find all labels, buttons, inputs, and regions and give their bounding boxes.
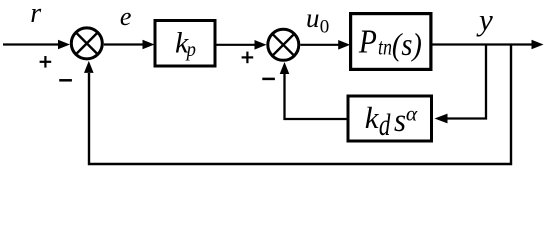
block Kp (155, 21, 215, 67)
svg-text:s: s (394, 103, 406, 139)
wire input r to summing junction S1 (3, 43, 59, 45)
node u0 label (306, 3, 329, 38)
label kp (175, 26, 196, 61)
wire Kp to summing junction S2 (217, 44, 256, 46)
plus sign at S1 (40, 56, 52, 68)
plus sign at S2 (242, 52, 254, 64)
label kd s^alpha (365, 100, 418, 142)
label Ptn(s) (358, 23, 422, 62)
svg-text:α: α (406, 102, 418, 126)
summing junction S2 (268, 29, 299, 60)
svg-text:P: P (358, 23, 377, 60)
svg-text:(s): (s) (392, 27, 422, 62)
wire S2 to block P (300, 44, 338, 46)
svg-text:0: 0 (320, 17, 330, 38)
block P plant (351, 14, 431, 70)
block Kd (348, 96, 432, 141)
summing junction S1 (71, 28, 102, 59)
svg-text:d: d (379, 107, 391, 142)
svg-text:y: y (476, 2, 493, 37)
svg-text:p: p (185, 37, 196, 61)
wire outer feedback y to S1 (89, 45, 511, 165)
svg-text:e: e (120, 2, 132, 31)
minus sign at S1 (59, 79, 72, 82)
svg-text:tn: tn (378, 35, 392, 60)
svg-text:r: r (30, 0, 41, 29)
wire S1 to block Kp (104, 43, 143, 45)
wire P to output y (433, 43, 533, 45)
svg-text:u: u (306, 3, 320, 33)
wire Kd to S2 from below (285, 74, 347, 119)
minus sign at S2 (262, 78, 275, 81)
wire output tap down to block Kd (447, 45, 486, 119)
svg-text:k: k (365, 100, 380, 135)
